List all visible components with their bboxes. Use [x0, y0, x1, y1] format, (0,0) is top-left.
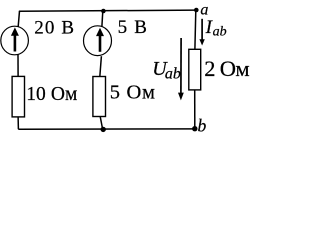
junction dot top middle: [101, 9, 106, 14]
wire left upper: [18, 11, 19, 27]
wire top: [19, 10, 196, 11]
svg-text:5 В: 5 В: [118, 17, 149, 38]
wire right lower: [194, 90, 196, 129]
voltage arrow Uab: [178, 38, 184, 100]
junction dot bottom middle: [101, 127, 106, 132]
svg-text:5 Ом: 5 Ом: [110, 82, 156, 104]
node b dot: [192, 126, 197, 131]
resistor R2 5 Ом: [93, 77, 106, 117]
svg-text:b: b: [198, 116, 207, 136]
E1 arrow: [11, 27, 19, 51]
svg-text:ab: ab: [213, 25, 227, 40]
resistor R1 10 Ом: [12, 76, 24, 117]
wire middle upper: [101, 11, 104, 27]
svg-text:2 Ом: 2 Ом: [204, 56, 249, 81]
svg-text:ab: ab: [165, 66, 181, 83]
wire below E1: [17, 54, 19, 76]
svg-text:a: a: [200, 2, 208, 19]
voltage source E2 circle: [84, 26, 112, 56]
wire below R2: [100, 117, 102, 130]
svg-text:20 В: 20 В: [34, 17, 75, 38]
current arrow Iab: [199, 19, 204, 46]
wire right upper: [194, 10, 197, 49]
E2 arrow: [96, 28, 104, 52]
svg-text:10 Ом: 10 Ом: [26, 84, 77, 105]
wire below E2: [100, 56, 102, 77]
node a dot: [194, 8, 199, 13]
resistor R3 2 Ом: [189, 49, 201, 90]
wire bottom: [18, 128, 195, 130]
voltage source E1 circle: [1, 26, 29, 55]
wire below R1: [17, 117, 19, 130]
